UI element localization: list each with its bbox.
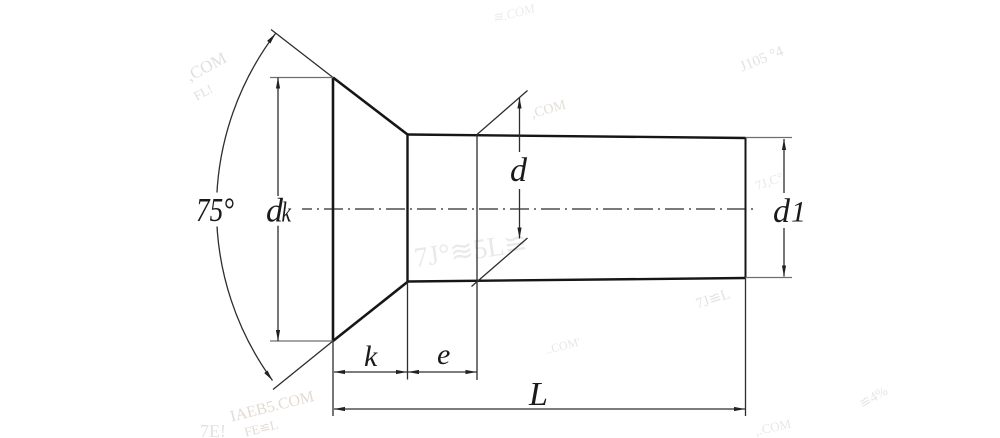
watermark bottom left	[229, 388, 320, 438]
rivet head conical top edge	[333, 78, 408, 135]
watermark bottom center right	[754, 416, 793, 438]
L dimension line	[334, 408, 745, 410]
watermark right mid	[753, 169, 785, 193]
svg-text:k: k	[282, 197, 292, 228]
watermark center d area	[530, 98, 569, 122]
watermark top center	[491, 0, 538, 25]
d arrowhead down	[517, 228, 521, 239]
svg-text:k: k	[364, 340, 378, 373]
d1 extension top	[746, 137, 793, 139]
arc arrowhead bottom	[264, 370, 274, 381]
label 75 degrees knockout	[193, 193, 239, 227]
e dimension line	[408, 371, 477, 373]
watermark center small	[544, 335, 582, 357]
d1 arrowhead down	[782, 266, 786, 277]
cone angle extension bottom	[273, 341, 333, 390]
cone angle extension top	[271, 30, 333, 78]
k left extension (below head corner)	[332, 341, 334, 416]
dk dimension line upper	[277, 78, 279, 197]
dk extension top	[270, 77, 333, 79]
d oblique extension bottom	[472, 238, 528, 287]
e arrowhead right	[466, 370, 477, 374]
head-shank junction line	[406, 135, 408, 282]
svg-text:1: 1	[791, 196, 806, 229]
rivet head conical bottom edge	[333, 282, 408, 342]
watermark left upper	[180, 48, 238, 103]
k arrowhead left	[334, 370, 345, 374]
watermark center big	[412, 227, 529, 274]
d dimension line upper	[519, 98, 521, 153]
d dimension line lower	[519, 189, 521, 239]
watermark bottom left block	[200, 421, 226, 438]
dk arrowhead up	[276, 78, 280, 89]
arc arrowhead top	[267, 32, 277, 43]
svg-text:e: e	[437, 338, 450, 371]
d arrowhead up	[517, 98, 521, 109]
rivet head left face	[332, 78, 335, 342]
d1 extension bottom	[746, 277, 793, 279]
svg-text:7E!: 7E!	[200, 421, 226, 438]
L arrowhead right	[734, 407, 745, 411]
shank end face	[745, 138, 747, 278]
watermark far right bottom	[857, 384, 891, 412]
dk extension bottom	[270, 340, 333, 342]
svg-text:d: d	[773, 193, 791, 230]
e arrowhead left	[408, 370, 419, 374]
centerline	[302, 208, 757, 210]
watermark top right	[738, 43, 787, 75]
svg-text:75°: 75°	[196, 192, 234, 229]
k arrowhead right	[396, 370, 407, 374]
e extension line (vertical at shank/cone blend)	[476, 135, 478, 381]
d oblique extension top	[477, 91, 528, 135]
L arrowhead left	[334, 407, 345, 411]
d1 dimension line upper	[783, 139, 785, 193]
shank bottom edge	[408, 278, 746, 282]
watermark right lower	[694, 286, 732, 312]
dk arrowhead down	[276, 330, 280, 341]
dk dimension line lower	[277, 226, 279, 341]
L right extension (below shank end)	[745, 278, 747, 416]
svg-text:d: d	[510, 152, 528, 189]
shank top edge	[408, 135, 746, 139]
k dimension line	[334, 371, 407, 373]
angle arc 75 degrees	[216, 34, 275, 381]
k/e middle extension (below junction)	[407, 282, 409, 380]
d1 arrowhead up	[782, 139, 786, 150]
d1 dimension line lower	[783, 228, 785, 277]
svg-text:L: L	[528, 376, 548, 413]
